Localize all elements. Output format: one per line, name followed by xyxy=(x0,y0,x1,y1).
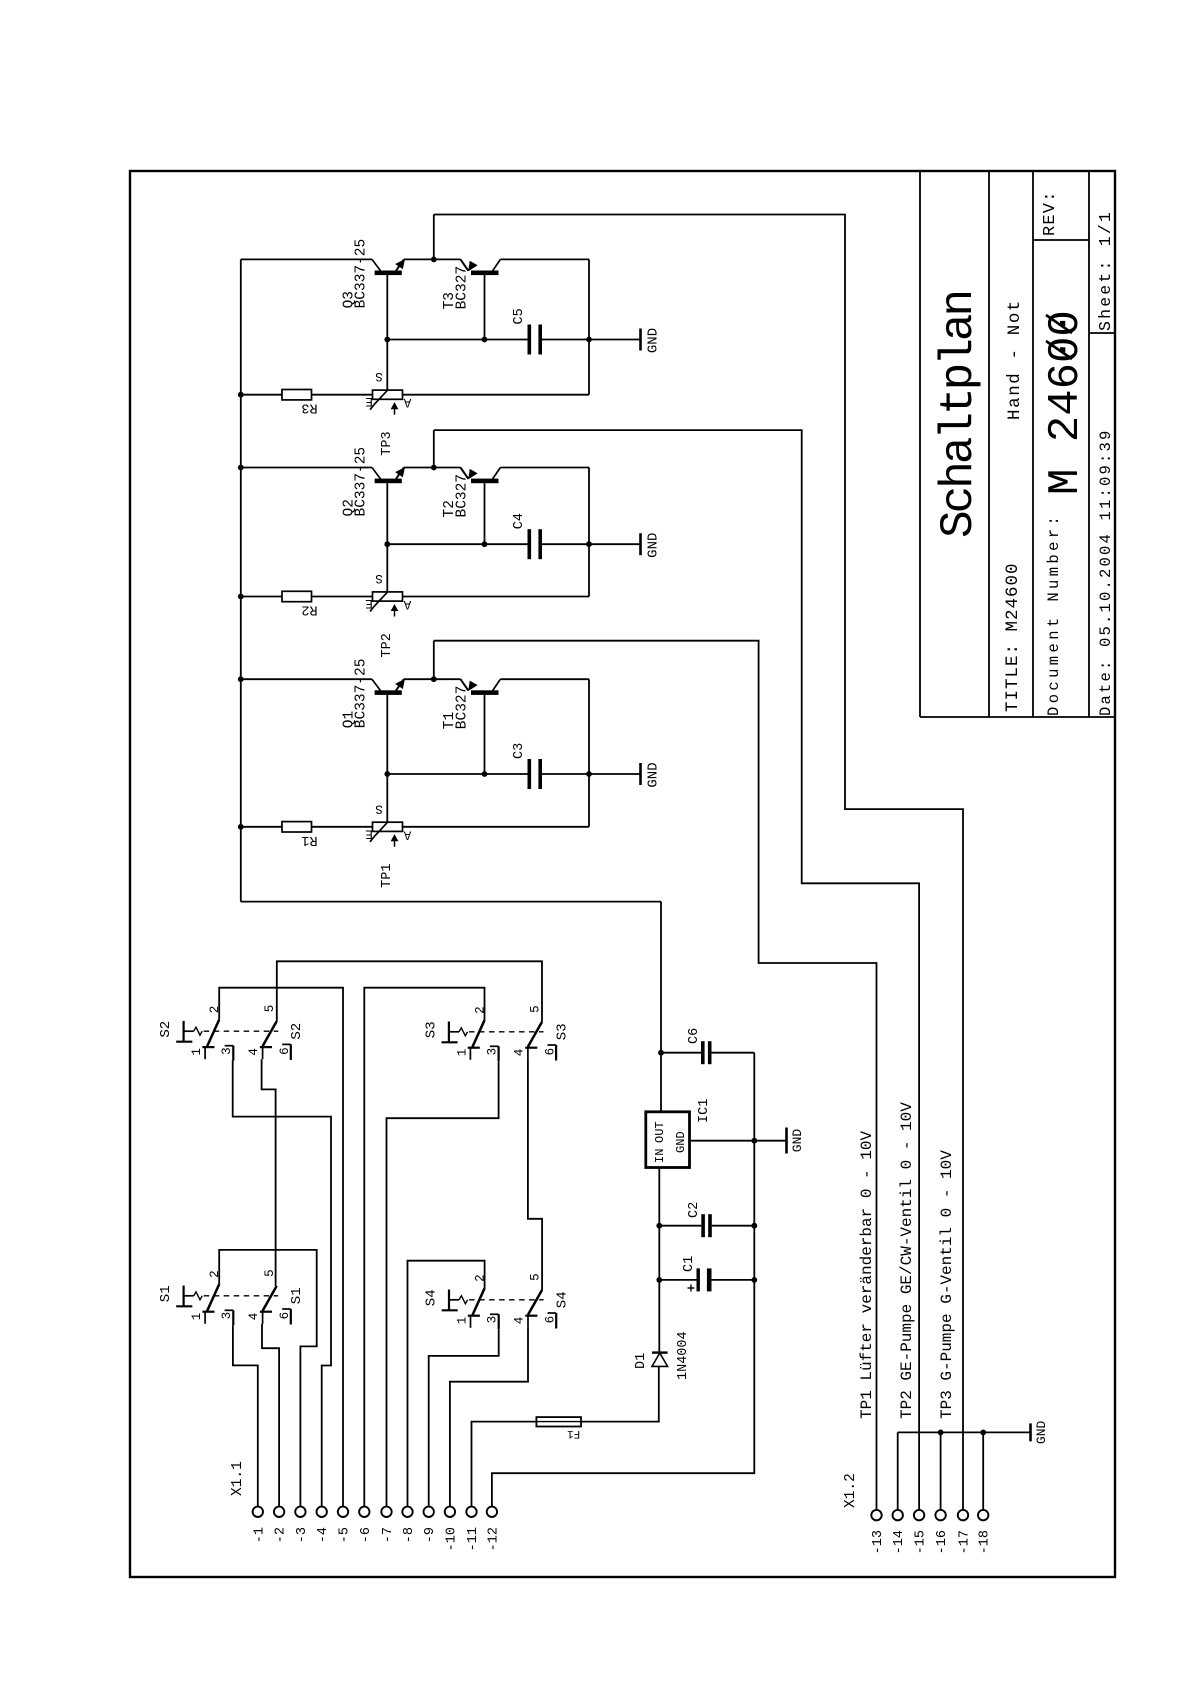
svg-text:5: 5 xyxy=(529,1273,543,1281)
svg-text:3: 3 xyxy=(220,1047,234,1055)
svg-text:4: 4 xyxy=(247,1048,261,1056)
svg-text:Schaltplan: Schaltplan xyxy=(933,292,985,538)
T3 base wire xyxy=(484,275,486,340)
svg-text:BC337-25: BC337-25 xyxy=(354,447,370,517)
capacitor C3 plate xyxy=(528,759,532,789)
wire fuse to supply rail xyxy=(581,1367,659,1422)
C2 plate xyxy=(708,1214,712,1237)
wire X1.1 -11 to fuse F1 xyxy=(472,1422,537,1507)
svg-text:-16: -16 xyxy=(935,1530,950,1554)
svg-text:-8: -8 xyxy=(402,1527,417,1543)
S2 spring xyxy=(194,1027,203,1035)
wire wiper to Q3 base xyxy=(386,275,388,390)
svg-text:GND: GND xyxy=(1034,1421,1049,1445)
svg-text:REV:: REV: xyxy=(1041,190,1060,236)
node IC1 gnd/rail xyxy=(751,1138,757,1144)
svg-text:S1: S1 xyxy=(158,1285,174,1302)
wire R1 to trimpot TP1 xyxy=(312,826,373,828)
wire S2 pin5 to S3 pin5 xyxy=(277,961,542,1022)
svg-text:GND: GND xyxy=(790,1129,805,1153)
node cap bottom xyxy=(586,541,592,547)
svg-text:S: S xyxy=(375,571,383,585)
node bus/collector xyxy=(238,676,244,682)
node bus/R3 xyxy=(238,392,244,398)
X1.2 pin -17 xyxy=(958,1510,968,1520)
svg-text:GND: GND xyxy=(674,1131,688,1153)
C1 plate+ xyxy=(697,1268,700,1291)
Q2 emitter arrow xyxy=(396,468,404,477)
node T base xyxy=(482,337,488,343)
C2 plate xyxy=(701,1214,705,1237)
Q1 emitter arrow xyxy=(396,680,404,689)
Q1 bar xyxy=(375,690,402,695)
svg-text:E: E xyxy=(365,826,373,840)
svg-text:BC327: BC327 xyxy=(455,686,471,730)
svg-text:GND: GND xyxy=(645,328,661,353)
X1.1 pin -1 xyxy=(253,1507,263,1517)
wire X1.1 -12 to ground rail xyxy=(492,1053,754,1507)
capacitor C4 plate xyxy=(538,529,542,559)
Q3 bar xyxy=(375,271,402,276)
S2 actuator xyxy=(183,1021,185,1041)
supply bus wire xyxy=(240,259,242,901)
svg-text:S3: S3 xyxy=(555,1023,571,1040)
svg-text:TP3: TP3 xyxy=(380,431,395,455)
T1 emitter arrow xyxy=(469,681,477,690)
svg-text:S1: S1 xyxy=(289,1287,305,1304)
X1.1 pin -6 xyxy=(359,1507,369,1517)
X1.1 pin -7 xyxy=(381,1507,391,1517)
svg-text:TP3 G-Pumpe G-Ventil 0 - 10V: TP3 G-Pumpe G-Ventil 0 - 10V xyxy=(938,1150,956,1419)
svg-text:A: A xyxy=(403,395,411,409)
wire TP1 A terminal down xyxy=(403,826,590,828)
ground symbol IC1 xyxy=(785,1128,788,1154)
capacitor C5 plate xyxy=(538,325,542,355)
S3 pin3 contact xyxy=(498,1046,500,1061)
svg-text:Document Number:: Document Number: xyxy=(1045,513,1063,716)
resistor R3 xyxy=(282,390,312,400)
wire bus to resistor R3 xyxy=(241,394,282,396)
svg-text:6: 6 xyxy=(544,1316,558,1324)
supply rail D1 to IC1 IN xyxy=(658,1168,660,1353)
X1.1 pin -3 xyxy=(295,1507,305,1517)
X1.2 ground net xyxy=(897,1432,899,1510)
C6 plate xyxy=(708,1041,712,1064)
S2 pin3 contact xyxy=(232,1046,234,1061)
capacitor branch C3 xyxy=(387,773,527,775)
T2 emitter arrow xyxy=(469,470,477,479)
svg-text:TP1: TP1 xyxy=(380,863,395,887)
S1 pole2 arm (pins 4-5-6) xyxy=(263,1286,277,1311)
page border frame xyxy=(130,171,1115,1577)
svg-text:TP2: TP2 xyxy=(380,633,395,657)
trimpot TP2 xyxy=(373,592,403,601)
S1 actuator dashed link xyxy=(204,1295,279,1297)
wire S4 pin3 to X1.1 -9 xyxy=(429,1329,499,1507)
Q2 bar xyxy=(375,479,402,484)
svg-text:-1: -1 xyxy=(252,1527,267,1543)
ground symbol stage 3 xyxy=(589,339,641,341)
wire R2 to trimpot TP2 xyxy=(312,596,373,598)
wire S2 pin4 to S1 pin5 xyxy=(262,1059,276,1286)
svg-text:5: 5 xyxy=(529,1005,543,1013)
S2 actuator dashed link xyxy=(204,1030,279,1032)
svg-text:X1.2: X1.2 xyxy=(843,1473,859,1508)
svg-text:X1.1: X1.1 xyxy=(230,1461,246,1496)
wire S3 pin2 to X1.1 -6 xyxy=(364,988,484,1507)
svg-text:TITLE: M24600: TITLE: M24600 xyxy=(1003,562,1023,712)
node C2 top xyxy=(656,1223,662,1229)
svg-text:3: 3 xyxy=(486,1316,500,1324)
wire S2 pin3 to X1.1 -4 xyxy=(233,1061,331,1507)
X1.1 pin -5 xyxy=(338,1507,348,1517)
T3 emitter arrow xyxy=(469,262,477,271)
capacitor C1 (electrolytic) xyxy=(659,1279,696,1281)
S1 pin3 contact xyxy=(232,1310,234,1325)
S3 actuator dashed link xyxy=(469,1031,544,1033)
node T base xyxy=(482,541,488,547)
svg-text:D1: D1 xyxy=(634,1353,649,1369)
IC1 voltage regulator xyxy=(646,1112,690,1168)
X1.1 pin -4 xyxy=(317,1507,327,1517)
node C6 top xyxy=(658,1050,664,1056)
wire S1 pin4 to X1.1 -2 xyxy=(262,1324,279,1507)
X1.1 pin -8 xyxy=(402,1507,412,1517)
S1 pin1 contact xyxy=(202,1311,214,1313)
X1.1 pin -2 xyxy=(274,1507,284,1517)
node bus/R2 xyxy=(238,594,244,600)
S2 pin6 contact xyxy=(290,1044,292,1060)
S1 spring xyxy=(194,1292,203,1300)
node cap bottom xyxy=(586,337,592,343)
node out xyxy=(431,257,437,263)
svg-text:1: 1 xyxy=(456,1049,470,1057)
svg-text:-6: -6 xyxy=(359,1527,374,1543)
capacitor branch C4 xyxy=(387,543,527,545)
svg-text:S3: S3 xyxy=(424,1021,440,1038)
wire stage2 output to X1.2 -15 xyxy=(434,430,919,1510)
C6 plate xyxy=(701,1041,705,1064)
S3 actuator xyxy=(448,1022,450,1042)
node gnd -18 xyxy=(980,1430,986,1436)
X1.1 pin -11 xyxy=(466,1507,476,1517)
stage bottom wire xyxy=(588,468,590,597)
node base/cap xyxy=(384,337,390,343)
S3 pin4 contact xyxy=(525,1047,537,1049)
svg-text:1: 1 xyxy=(190,1048,204,1056)
wire stage1 output to X1.2 -13 xyxy=(434,641,877,1510)
svg-text:Hand - Not: Hand - Not xyxy=(1005,299,1025,420)
svg-text:E: E xyxy=(365,596,373,610)
svg-text:1: 1 xyxy=(190,1313,204,1321)
svg-text:-2: -2 xyxy=(274,1527,289,1543)
node C2 bottom xyxy=(751,1223,757,1229)
S3 pole2 arm (pins 4-5-6) xyxy=(528,1022,542,1047)
capacitor C5 plate xyxy=(528,325,532,355)
svg-text:-15: -15 xyxy=(914,1530,929,1554)
S4 actuator xyxy=(448,1290,450,1310)
wire S4 pin2 to X1.1 -8 xyxy=(408,1261,485,1507)
svg-text:OUT: OUT xyxy=(653,1121,667,1143)
S1 pin4 contact xyxy=(260,1311,272,1313)
svg-text:-13: -13 xyxy=(871,1530,886,1554)
schematic drawn in landscape orientation, rotated -90deg xyxy=(130,171,1115,1577)
S1 pole1 arm (pins 1-2-3) xyxy=(207,1284,219,1311)
svg-text:S2: S2 xyxy=(289,1023,305,1040)
S4 pin6 contact xyxy=(555,1313,557,1329)
node bus/R1 xyxy=(238,824,244,830)
svg-text:3: 3 xyxy=(220,1312,234,1320)
svg-text:IC1: IC1 xyxy=(697,1099,712,1123)
svg-text:3: 3 xyxy=(486,1048,500,1056)
svg-text:M 24600: M 24600 xyxy=(1041,310,1091,495)
ground symbol X1.2 xyxy=(1029,1423,1032,1441)
svg-text:4: 4 xyxy=(513,1317,527,1325)
svg-text:R1: R1 xyxy=(301,832,317,847)
wire S4 pin4 to X1.1 -10 xyxy=(450,1328,528,1507)
svg-text:BC337-25: BC337-25 xyxy=(354,239,370,309)
S1 pin6 contact xyxy=(290,1309,292,1325)
X1.2 pin -18 xyxy=(978,1510,988,1520)
IC1 GND pin wire xyxy=(690,1140,786,1142)
svg-text:C4: C4 xyxy=(512,513,527,529)
node C1 bottom xyxy=(751,1277,757,1283)
D1 triangle xyxy=(652,1353,668,1366)
wire wiper to Q2 base xyxy=(386,483,388,592)
svg-text:S2: S2 xyxy=(158,1021,174,1038)
svg-text:BC327: BC327 xyxy=(455,266,471,310)
svg-text:6: 6 xyxy=(544,1048,558,1056)
svg-text:-4: -4 xyxy=(316,1527,331,1543)
wire S2 pin2 to X1.1 -5 xyxy=(219,988,343,1507)
svg-text:6: 6 xyxy=(278,1312,292,1320)
svg-text:4: 4 xyxy=(513,1049,527,1057)
S4 actuator dashed link xyxy=(469,1299,543,1301)
svg-text:BC337-25: BC337-25 xyxy=(354,659,370,729)
S4 pole1 arm (pins 1-2-3) xyxy=(473,1288,485,1315)
stage bottom wire xyxy=(588,259,590,394)
svg-text:F1: F1 xyxy=(567,1427,581,1439)
X1.2 pin -16 xyxy=(935,1510,945,1520)
svg-text:-18: -18 xyxy=(978,1530,993,1554)
svg-text:R2: R2 xyxy=(301,602,317,617)
wire S3 pin3 to X1.1 -7 xyxy=(387,1061,499,1507)
S2 pin1 contact xyxy=(202,1046,214,1048)
wire stage3 output to X1.2 -17 xyxy=(434,215,963,1511)
svg-text:-12: -12 xyxy=(486,1527,501,1551)
node T base xyxy=(482,771,488,777)
svg-text:-3: -3 xyxy=(295,1527,310,1543)
svg-text:C1: C1 xyxy=(682,1256,697,1272)
svg-text:BC327: BC327 xyxy=(455,474,471,518)
S4 pin3 contact xyxy=(498,1314,500,1329)
X1.1 pin -9 xyxy=(424,1507,434,1517)
capacitor branch C5 xyxy=(387,339,527,341)
node cap bottom xyxy=(586,771,592,777)
node base/cap xyxy=(384,771,390,777)
node bus/collector xyxy=(238,465,244,471)
S3 pole1 arm (pins 1-2-3) xyxy=(472,1020,484,1047)
svg-text:4: 4 xyxy=(247,1313,261,1321)
svg-text:5: 5 xyxy=(263,1005,277,1013)
svg-text:R3: R3 xyxy=(301,400,317,415)
svg-text:1: 1 xyxy=(456,1317,470,1325)
T1 bar xyxy=(471,690,499,695)
svg-text:GND: GND xyxy=(645,762,661,787)
S3 spring xyxy=(459,1028,468,1036)
S3 pin1 contact xyxy=(468,1047,480,1049)
svg-text:IN: IN xyxy=(653,1149,667,1163)
svg-text:E: E xyxy=(365,394,373,408)
X1.2 pin -15 xyxy=(914,1510,924,1520)
svg-text:1N4004: 1N4004 xyxy=(676,1331,691,1380)
trimpot TP1 xyxy=(373,822,403,831)
T1 base wire xyxy=(484,695,486,774)
svg-text:-10: -10 xyxy=(444,1527,459,1551)
C1 plate xyxy=(707,1268,712,1291)
S2 pole2 arm (pins 4-5-6) xyxy=(263,1021,277,1046)
Q3 emitter arrow xyxy=(396,260,404,269)
S1 actuator xyxy=(183,1286,185,1306)
wire TP2 A terminal down xyxy=(403,596,590,598)
X1.2 pin -13 xyxy=(871,1510,881,1520)
S4 pole2 arm (pins 4-5-6) xyxy=(528,1290,542,1315)
D1 cathode bar xyxy=(652,1351,668,1353)
node C1 top xyxy=(656,1277,662,1283)
T2 bar xyxy=(471,479,499,484)
svg-text:Date: 05.10.2004 11:09:39: Date: 05.10.2004 11:09:39 xyxy=(1097,428,1115,716)
svg-text:-14: -14 xyxy=(892,1530,907,1554)
T2 base wire xyxy=(484,483,486,544)
node gnd -16 xyxy=(938,1430,944,1436)
S4 spring xyxy=(459,1296,468,1304)
wire S1 pin3 to X1.1 -1 xyxy=(233,1325,258,1507)
wire wiper to Q1 base xyxy=(386,695,388,823)
capacitor C6 xyxy=(661,1052,701,1054)
wire TP3 A terminal down xyxy=(403,394,590,396)
node out xyxy=(431,676,437,682)
wire S3 pin4 to S4 pin5 xyxy=(528,1060,542,1290)
svg-text:GND: GND xyxy=(645,533,661,558)
wire R3 to trimpot TP3 xyxy=(312,394,373,396)
svg-text:Sheet: 1/1: Sheet: 1/1 xyxy=(1096,210,1115,331)
wire bus to resistor R2 xyxy=(241,596,282,598)
svg-text:S4: S4 xyxy=(555,1291,571,1308)
wire S1 pin2 to X1.1 -3 xyxy=(219,1250,317,1507)
X1.1 pin -12 xyxy=(487,1507,497,1517)
svg-text:-7: -7 xyxy=(381,1527,396,1543)
trimpot arrow xyxy=(394,605,396,617)
slashed zeros of M 24600 xyxy=(1046,341,1072,359)
svg-text:TP1 Lüfter veränderbar 0 - 1: TP1 Lüfter veränderbar 0 - 10V xyxy=(858,1131,876,1419)
svg-text:S: S xyxy=(375,801,383,815)
capacitor C4 plate xyxy=(528,529,532,559)
svg-text:C3: C3 xyxy=(512,743,527,759)
svg-text:-11: -11 xyxy=(466,1527,481,1551)
X1.1 pin -10 xyxy=(445,1507,455,1517)
svg-text:6: 6 xyxy=(278,1047,292,1055)
S2 pin4 contact xyxy=(260,1046,272,1048)
svg-text:S: S xyxy=(375,369,383,383)
node out xyxy=(431,465,437,471)
ground symbol stage 2 xyxy=(589,543,641,545)
svg-text:A: A xyxy=(403,827,411,841)
node base/cap xyxy=(384,541,390,547)
T3 bar xyxy=(471,271,499,276)
S4 pin4 contact xyxy=(525,1315,537,1317)
title block xyxy=(919,171,921,717)
resistor R2 xyxy=(282,591,312,601)
capacitor C3 plate xyxy=(538,759,542,789)
resistor R1 xyxy=(282,822,312,832)
stage bottom wire xyxy=(588,679,590,827)
ground symbol stage 1 xyxy=(589,773,641,775)
S3 pin6 contact xyxy=(555,1045,557,1061)
fuse F1 xyxy=(536,1417,581,1426)
svg-text:C5: C5 xyxy=(512,308,527,324)
trimpot TP3 xyxy=(373,390,403,399)
S2 pole1 arm (pins 1-2-3) xyxy=(207,1020,219,1047)
svg-text:-17: -17 xyxy=(958,1530,973,1554)
svg-text:C2: C2 xyxy=(687,1202,702,1218)
svg-text:TP2 GE-Pumpe GE/CW-Ventil 0: TP2 GE-Pumpe GE/CW-Ventil 0 - 10V xyxy=(898,1102,916,1419)
X1.2 pin -14 xyxy=(893,1510,903,1520)
svg-text:A: A xyxy=(403,597,411,611)
wire bus to resistor R1 xyxy=(241,826,282,828)
svg-text:S4: S4 xyxy=(424,1289,440,1306)
trimpot arrow xyxy=(394,835,396,847)
trimpot arrow xyxy=(394,403,396,415)
S4 pin1 contact xyxy=(468,1315,480,1317)
svg-text:-9: -9 xyxy=(423,1527,438,1543)
svg-text:C6: C6 xyxy=(687,1028,702,1044)
svg-text:-5: -5 xyxy=(338,1527,353,1543)
capacitor C2 xyxy=(659,1225,701,1227)
